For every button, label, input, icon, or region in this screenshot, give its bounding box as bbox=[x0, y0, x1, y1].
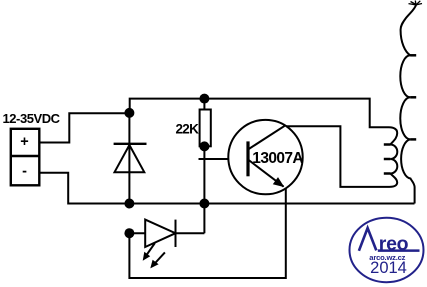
wire LED cathode to rail bbox=[176, 232, 205, 234]
diode D1 bbox=[114, 113, 147, 204]
wire emitter loop to LED anode node bbox=[129, 188, 285, 278]
node junction dot resistor bottom bbox=[199, 141, 209, 151]
svg-text:22K: 22K bbox=[176, 122, 200, 137]
svg-text:13007A: 13007A bbox=[252, 150, 303, 167]
watermark logo bbox=[350, 218, 424, 282]
wire resistor bottom down to LED cathode branch bbox=[203, 146, 205, 233]
Q1 collector line bbox=[248, 126, 285, 150]
Q1 base bar bbox=[246, 141, 249, 176]
Q1 emitter line with arrow bbox=[248, 160, 284, 188]
wire from - terminal to bottom rail bbox=[39, 173, 415, 204]
node junction dot rail / LED cathode branch bbox=[199, 199, 209, 209]
LED D2 bbox=[145, 220, 175, 247]
wire LED anode stub bbox=[129, 232, 145, 234]
node A junction dot (+ / diode top) bbox=[124, 108, 134, 118]
svg-text:reo: reo bbox=[379, 233, 409, 255]
antenna spark symbol bbox=[409, 1, 423, 6]
transformer secondary L2 bbox=[400, 5, 416, 204]
LED light arrows bbox=[143, 243, 165, 268]
wire from L1 bottom to Q1 collector bbox=[285, 126, 390, 187]
node junction dot LED anode bbox=[124, 228, 134, 238]
wire top rail from node A to transformer bbox=[130, 99, 389, 128]
wire base of Q1 bbox=[199, 158, 247, 160]
svg-text:2014: 2014 bbox=[370, 259, 407, 277]
node junction dot diode bottom on rail bbox=[124, 199, 134, 209]
inductor L1 primary winding bbox=[384, 127, 398, 187]
node junction dot resistor top bbox=[199, 94, 209, 104]
resistor R1 bbox=[200, 99, 211, 147]
svg-text:+: + bbox=[20, 134, 28, 150]
svg-text:12-35VDC: 12-35VDC bbox=[3, 111, 61, 126]
terminal block J1 bbox=[11, 129, 40, 186]
transistor Q1 circle bbox=[228, 120, 302, 194]
wire from + terminal up to node A bbox=[39, 113, 130, 142]
svg-text:-: - bbox=[22, 163, 27, 179]
